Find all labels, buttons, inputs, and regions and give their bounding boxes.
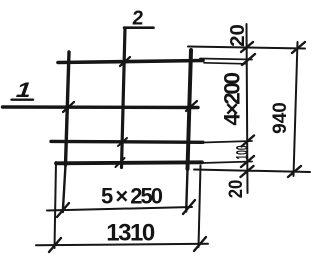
- tick at junction V2 x H1: [120, 57, 130, 66]
- tick left end of 1310 dimension: [49, 238, 61, 252]
- node label 2 callout underline: [124, 26, 154, 29]
- wire horizontal bar H2 (bar 1 leader): [3, 105, 199, 109]
- dimension line outer vertical (940): [294, 42, 298, 176]
- tick inner dimension at H3 level: [242, 136, 255, 147]
- wire extension of V3 down to 5x250 line: [186, 169, 187, 212]
- tick at junction V2 x H4: [116, 158, 125, 167]
- svg-text:1310: 1310: [106, 220, 155, 247]
- tick top end of 940 dimension line: [292, 42, 305, 53]
- wire vertical bar V2 (middle, from callout 2): [122, 28, 126, 168]
- dimension line 5x250: [47, 207, 192, 211]
- tick at junction V1 x H2: [63, 102, 74, 112]
- wire vertical bar V1 (left): [66, 52, 70, 165]
- dimension line inner vertical (20 / 4x200 / 100 / 20): [247, 24, 248, 193]
- wire horizontal bar H1 (top): [58, 61, 203, 63]
- wire extension of H1 to inner dimension line: [200, 59, 252, 60]
- wire short stray extension of H1: [204, 63, 245, 64]
- wire top extension line (vertical-bar top ends): [188, 47, 305, 49]
- svg-text:940: 940: [270, 102, 291, 134]
- wire extension of V1 down to 5x250 line: [63, 165, 66, 212]
- svg-text:20: 20: [225, 180, 246, 199]
- wire extension line right for 1310: [199, 166, 201, 248]
- wire extension line left for 1310: [55, 162, 57, 248]
- tick inner dimension at H1 level: [242, 54, 255, 65]
- tick at junction V2 x H3: [118, 138, 127, 146]
- wire extension of H4 to inner dimension line: [202, 162, 252, 164]
- node label 1 underline: [12, 98, 34, 100]
- svg-text:2: 2: [132, 8, 145, 30]
- tick at junction V3 x H2: [186, 101, 197, 111]
- wire extension of H3 to inner dimension line: [203, 141, 252, 143]
- tick top end of inner dimension line: [241, 42, 253, 52]
- wire bottom extension line (vertical-bar bottom ends): [194, 170, 310, 173]
- svg-text:5 × 250: 5 × 250: [101, 184, 163, 209]
- tick inner dimension at H4 level: [241, 156, 254, 167]
- tick bottom end of 940 dimension line: [288, 166, 301, 177]
- svg-text:1: 1: [15, 78, 32, 102]
- wire horizontal bar H4 (bottom): [56, 162, 202, 163]
- wire horizontal bar H3: [51, 140, 203, 144]
- tick left end of 5x250 dimension: [57, 203, 69, 217]
- wire vertical bar V3 (right): [188, 50, 192, 169]
- svg-text:100: 100: [232, 145, 251, 159]
- svg-text:20: 20: [226, 24, 249, 47]
- svg-text:4×200: 4×200: [220, 73, 245, 126]
- dimension line 1310: [36, 244, 208, 246]
- tick right end of 1310 dimension: [194, 237, 206, 251]
- tick bottom end of inner dimension line: [241, 166, 254, 177]
- tick right end of 5x250 dimension: [183, 200, 195, 214]
